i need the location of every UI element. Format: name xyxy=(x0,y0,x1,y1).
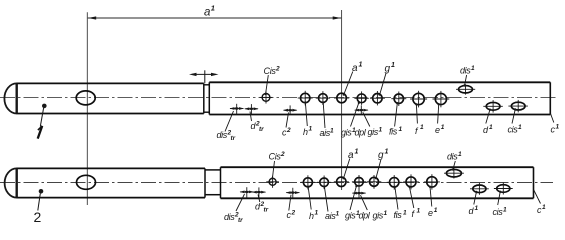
flute 1 hole gis1dpl xyxy=(341,91,369,137)
svg-text:1: 1 xyxy=(330,128,334,135)
svg-text:1: 1 xyxy=(458,151,462,158)
flute 1 body tube top xyxy=(209,81,550,83)
svg-text:gis: gis xyxy=(341,128,352,138)
svg-text:2: 2 xyxy=(291,210,296,217)
flute 2 trill mark c2 xyxy=(286,188,300,220)
svg-text:e: e xyxy=(428,208,433,218)
svg-text:tr: tr xyxy=(259,126,264,133)
dimension line a1 xyxy=(88,17,342,19)
centerline flute 2 xyxy=(0,182,553,184)
svg-text:1: 1 xyxy=(503,207,507,214)
flute 1 trill mark c2 xyxy=(282,105,297,137)
flute 2 hole gis1dpl xyxy=(345,175,371,221)
flute 1 head tube top xyxy=(17,82,204,84)
svg-text:gis: gis xyxy=(345,211,356,221)
svg-text:1: 1 xyxy=(379,127,383,134)
svg-text:2: 2 xyxy=(286,127,291,134)
flute 2 end label c1 xyxy=(534,190,546,215)
flute 2 trill mark dis2tr xyxy=(224,187,254,224)
svg-text:g: g xyxy=(378,150,384,161)
flute 1 hole dis1 (side, above axis) xyxy=(456,65,475,95)
flute 2 hole ais1 xyxy=(317,176,340,222)
flute 2 trill mark below gis1 xyxy=(352,188,388,220)
flute 1 hole h1 xyxy=(298,91,313,137)
flute 1 ref dot + label 1 xyxy=(42,104,47,109)
flute 1 cap xyxy=(4,83,16,113)
svg-text:tr: tr xyxy=(231,135,236,142)
flute 2 hole dis1 (side, above axis) xyxy=(444,151,464,179)
svg-text:1: 1 xyxy=(385,149,389,156)
svg-text:1: 1 xyxy=(542,204,546,211)
svg-text:tr: tr xyxy=(264,207,269,214)
svg-text:gis: gis xyxy=(373,211,384,221)
svg-text:dis: dis xyxy=(217,130,228,140)
flute 2 hole fis1 xyxy=(387,175,407,220)
svg-text:2: 2 xyxy=(275,66,280,73)
svg-text:dis: dis xyxy=(224,212,235,222)
flute 2 ref dot + label 2 xyxy=(39,189,44,194)
dimension arrowhead right xyxy=(333,16,341,19)
flute 2 hole d1 (side, below axis) xyxy=(469,183,489,216)
flute 2 hole e1 xyxy=(424,174,440,218)
svg-text:fis: fis xyxy=(389,127,398,137)
flute 2 hole a1 (labelled above) xyxy=(334,149,359,187)
svg-text:1: 1 xyxy=(359,62,363,69)
flute 1 joint xyxy=(203,83,205,113)
svg-text:dpl: dpl xyxy=(355,128,367,138)
svg-text:1: 1 xyxy=(471,65,475,72)
svg-text:1: 1 xyxy=(336,211,340,218)
flute 2 hole f1 xyxy=(403,174,420,219)
svg-text:1: 1 xyxy=(315,210,319,217)
flute 1 trill mark dis2tr xyxy=(217,104,245,142)
flute 1 hole d1 (side, below axis) xyxy=(483,100,503,135)
svg-text:1: 1 xyxy=(403,210,407,217)
svg-text:1: 1 xyxy=(309,126,313,133)
flute 1 hole cis1 (side, below axis) xyxy=(508,100,528,135)
dimension arrowhead left xyxy=(88,16,96,19)
svg-text:cis: cis xyxy=(508,125,519,135)
svg-text:1: 1 xyxy=(355,149,359,156)
flute 1 hole ais1 xyxy=(316,91,334,138)
svg-text:1: 1 xyxy=(420,124,424,131)
svg-text:1: 1 xyxy=(384,210,388,217)
svg-text:h: h xyxy=(303,127,308,137)
flute 2 cap xyxy=(5,168,17,197)
svg-text:gis: gis xyxy=(368,127,379,137)
flute 1 body end (c1) xyxy=(549,82,551,114)
flute 2 body end (c1) xyxy=(533,167,535,198)
svg-text:e: e xyxy=(435,125,440,135)
svg-text:1: 1 xyxy=(211,4,215,13)
svg-text:2: 2 xyxy=(280,151,285,158)
svg-text:g: g xyxy=(385,64,391,75)
flute 2 hole cis1 (side, below axis) xyxy=(493,183,513,218)
flute 2 hole g1 (labelled above) xyxy=(367,149,389,189)
flute 1 trill mark below gis1 xyxy=(354,105,382,137)
svg-text:h: h xyxy=(309,211,314,221)
svg-text:Cis: Cis xyxy=(269,152,282,162)
svg-text:Cis: Cis xyxy=(264,66,277,76)
centerline flute 1 xyxy=(0,97,557,99)
svg-text:1: 1 xyxy=(556,124,560,131)
flute 2 body tube top xyxy=(221,166,534,168)
svg-text:dis: dis xyxy=(447,152,458,162)
flute 2 hole cis2 xyxy=(266,151,285,188)
svg-text:tr: tr xyxy=(238,217,243,224)
flute 1 hole cis2 xyxy=(260,66,280,104)
flute 2 hole h1 xyxy=(301,175,319,221)
svg-text:1: 1 xyxy=(489,124,493,131)
flute 1 hole g1 (labelled above) xyxy=(370,62,395,105)
flute 1 hole f1 xyxy=(410,91,427,136)
flute 1 end label c1 xyxy=(551,114,560,135)
flute 1 hole fis1 xyxy=(389,92,406,137)
flute 1 tuning-slide arrow xyxy=(192,73,216,75)
svg-text:dpl: dpl xyxy=(359,211,371,221)
flute 2 trill mark d2tr xyxy=(252,187,269,213)
flute 2 head tube top xyxy=(17,167,206,169)
flute 1 body tube bottom xyxy=(209,114,550,116)
svg-text:fis: fis xyxy=(394,210,403,220)
svg-text:1: 1 xyxy=(434,207,438,214)
svg-text:1: 1 xyxy=(518,124,522,131)
svg-text:1: 1 xyxy=(391,62,395,69)
svg-text:a: a xyxy=(352,63,358,74)
svg-text:a: a xyxy=(348,150,354,161)
extension line through embouchure holes (x=87.6) xyxy=(86,12,88,205)
flute 1 head tube bottom xyxy=(17,113,204,115)
svg-text:dis: dis xyxy=(460,66,471,76)
extension line through a1 holes (x=341.6) xyxy=(341,10,343,190)
flute 2 embouchure hole xyxy=(77,175,96,189)
flute 2 joint tenon xyxy=(204,168,206,197)
flute 2 body tube bottom xyxy=(221,197,534,199)
svg-text:2: 2 xyxy=(34,209,42,225)
flute 1 hole e1 xyxy=(433,91,450,135)
flute 2 head tube bottom xyxy=(17,197,206,199)
svg-text:1: 1 xyxy=(399,126,403,133)
svg-text:1: 1 xyxy=(475,205,479,212)
svg-text:1: 1 xyxy=(417,208,421,215)
flute 1 hole a1 (labelled above) xyxy=(334,62,363,103)
svg-text:a: a xyxy=(204,7,210,19)
flute 1 trill mark d2tr xyxy=(244,104,264,133)
flute 1 embouchure hole xyxy=(76,91,95,105)
svg-text:cis: cis xyxy=(493,207,504,217)
svg-text:1: 1 xyxy=(441,124,445,131)
